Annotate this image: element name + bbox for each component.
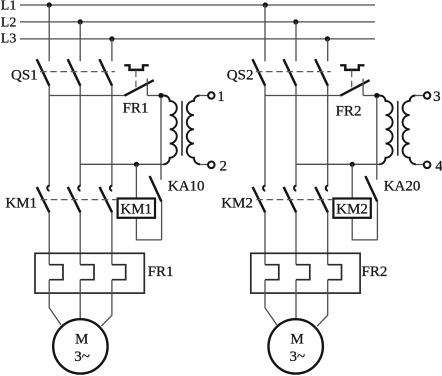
relay KA20 secondary winding <box>403 96 416 165</box>
wire FR1 contact to node <box>147 95 161 97</box>
terminal 4 <box>424 162 431 169</box>
wire KA10 secondary to terminal 1 <box>200 95 208 97</box>
switch QS1 pole 3 top stub wire <box>111 39 113 61</box>
thermal overload FR2 heater element phase 1 <box>265 265 279 280</box>
svg-text:FR1: FR1 <box>123 100 149 116</box>
svg-text:FR2: FR2 <box>362 264 388 280</box>
switch QS2 pole 2 blade <box>284 59 297 86</box>
thermal overload relay FR1 enclosure <box>35 253 144 293</box>
node: L2 tap motor 1 junction <box>78 19 83 24</box>
contactor KM1 main contact pole 2 blade <box>68 187 81 213</box>
thermal relay FR2 NC contact blade <box>340 80 369 96</box>
contactor coil KM1 <box>118 199 155 218</box>
thermal overload FR2 heater element phase 3 <box>328 265 342 280</box>
switch QS2 pole 3 top stub wire <box>327 39 329 61</box>
node: KM2 coil / KA20 coil junction <box>350 162 355 167</box>
wire phase A tap to FR2 contact <box>265 95 340 97</box>
switch QS1 mechanical link (dashed) <box>40 71 115 73</box>
thermal relay FR1 actuator link (dashed) <box>135 71 137 90</box>
wire FR2 phase 2 to motor <box>295 280 297 319</box>
terminal 2 <box>208 162 215 169</box>
contactor KM1 main contact pole 1 blade <box>37 187 50 213</box>
svg-text:QS2: QS2 <box>227 68 254 84</box>
contactor KM1 main contact pole 3 blade <box>100 187 113 213</box>
svg-text:1: 1 <box>217 89 225 105</box>
thermal overload FR1 heater element phase 1 <box>49 265 63 280</box>
switch QS2 pole 1 top stub wire <box>264 5 266 61</box>
power rail L2 <box>20 21 375 23</box>
svg-text:L1: L1 <box>1 0 17 14</box>
thermal relay FR1 NC contact blade <box>125 80 154 96</box>
wire node to KM1 coil <box>135 164 137 198</box>
thermal relay FR2 test button symbol <box>340 65 364 70</box>
relay KA10 NO contact blade <box>150 176 162 202</box>
wire phase B tap to KA10 coil bottom <box>80 163 164 165</box>
wire node to KA10 NO contact <box>160 97 162 180</box>
svg-text:KA10: KA10 <box>168 179 205 195</box>
thermal overload relay FR2 enclosure <box>251 253 360 293</box>
wire FR2 phase 3 to motor <box>317 280 328 326</box>
wire KM2 contact pole 3 to FR2 heater <box>327 212 329 264</box>
wire phase B from QS2 to KM2 contact <box>295 86 297 187</box>
terminal 1 <box>208 92 214 98</box>
node: L2 tap motor 2 junction <box>293 19 298 24</box>
svg-text:3~: 3~ <box>289 349 305 365</box>
wire phase A from QS2 to KM2 contact <box>264 86 266 187</box>
svg-text:M: M <box>290 332 303 348</box>
wire KM1 contact pole 2 to FR1 heater <box>79 212 81 264</box>
contactor KM2 main contact pole 3 blade <box>315 187 328 213</box>
svg-text:3~: 3~ <box>74 349 90 365</box>
switch QS2 pole 2 top stub wire <box>295 22 297 61</box>
node: L1 tap motor 1 junction <box>47 2 52 7</box>
contactor KM2 main contact pole 1 blade <box>253 187 266 213</box>
relay KA10 primary winding <box>161 96 177 165</box>
contactor KM2 main contact pole 2 fixed piece <box>294 186 296 191</box>
node: L3 tap motor 1 junction <box>109 36 114 41</box>
svg-text:FR2: FR2 <box>336 103 362 119</box>
svg-text:KA20: KA20 <box>384 179 421 195</box>
motor M1 (3-phase) <box>53 319 107 373</box>
svg-text:L3: L3 <box>1 32 17 47</box>
thermal relay FR1 NC contact fixed terminal stub <box>146 79 148 96</box>
terminal 3 <box>424 92 430 98</box>
contactor KM1 mechanical link (dashed) <box>41 199 118 201</box>
contactor KM1 main contact pole 2 fixed piece <box>78 186 80 191</box>
contactor KM1 main contact pole 1 fixed piece <box>47 186 49 191</box>
switch QS2 pole 3 blade <box>315 59 328 86</box>
relay KA10 core <box>181 101 183 156</box>
wire KA10 contact to KM1 coil bottom <box>136 218 161 240</box>
wire phase C from QS2 to KM2 contact <box>327 86 329 187</box>
svg-text:4: 4 <box>435 159 442 175</box>
wire KM1 contact pole 1 to FR1 heater <box>48 212 50 264</box>
wire phase C from QS1 to KM1 contact <box>111 86 113 187</box>
svg-text:KM2: KM2 <box>221 196 253 212</box>
switch QS2 pole 1 blade <box>253 59 266 86</box>
thermal relay FR1 test button symbol <box>124 65 148 70</box>
wire FR1 phase 3 to motor <box>101 280 112 326</box>
thermal overload FR1 heater element phase 3 <box>112 265 126 280</box>
switch QS1 pole 3 blade <box>99 59 112 86</box>
contactor KM2 main contact pole 1 fixed piece <box>263 186 265 191</box>
svg-text:KM1: KM1 <box>5 196 37 212</box>
contactor KM1 main contact pole 3 fixed piece <box>110 186 112 191</box>
node: FR1 contact / KA10 coil junction <box>158 93 163 98</box>
wire phase A tap to FR1 contact <box>49 95 124 97</box>
contactor KM2 mechanical link (dashed) <box>256 199 333 201</box>
wire node to KA20 NO contact <box>376 97 378 180</box>
svg-text:KM2: KM2 <box>336 202 368 218</box>
switch QS1 pole 2 top stub wire <box>79 22 81 61</box>
thermal relay FR2 NC contact fixed terminal stub <box>362 79 364 96</box>
wire KA20 secondary to terminal 3 <box>415 95 423 97</box>
switch QS1 pole 2 blade <box>68 59 81 86</box>
wire KA20 contact to KM2 coil bottom <box>352 218 377 240</box>
relay KA20 primary winding <box>377 96 393 165</box>
svg-text:QS1: QS1 <box>11 68 38 84</box>
node: L3 tap motor 2 junction <box>325 36 330 41</box>
wire KM2 contact pole 1 to FR2 heater <box>264 212 266 264</box>
svg-text:2: 2 <box>220 159 228 175</box>
wire phase B from QS1 to KM1 contact <box>79 86 81 187</box>
power rail L1 <box>20 4 375 6</box>
wire KM1 contact pole 3 to FR1 heater <box>111 212 113 264</box>
node: KM1 coil / KA10 coil junction <box>134 162 139 167</box>
thermal overload FR2 heater element phase 2 <box>296 265 310 280</box>
wire phase A from QS1 to KM1 contact <box>48 86 50 187</box>
thermal relay FR2 actuator link (dashed) <box>351 71 353 90</box>
relay KA20 NO contact blade <box>365 176 377 202</box>
motor M2 (3-phase) <box>269 319 323 373</box>
svg-text:L2: L2 <box>1 15 17 30</box>
contactor coil KM2 <box>333 199 370 218</box>
svg-text:KM1: KM1 <box>120 202 152 218</box>
wire node to KM2 coil <box>351 164 353 198</box>
wire KA20 contact lower stub <box>376 202 378 240</box>
wire FR2 contact to node <box>363 95 377 97</box>
svg-text:3: 3 <box>433 89 441 105</box>
wire phase B tap to KA20 coil bottom <box>296 163 380 165</box>
wire FR2 phase 1 to motor <box>265 280 277 325</box>
wire KA20 secondary to terminal 4 <box>416 164 424 166</box>
node: L1 tap motor 2 junction <box>263 2 268 7</box>
svg-text:M: M <box>75 332 88 348</box>
switch QS1 pole 1 blade <box>37 59 50 86</box>
node: FR2 contact / KA20 coil junction <box>374 93 379 98</box>
contactor KM2 main contact pole 3 fixed piece <box>326 186 328 191</box>
relay KA10 secondary winding <box>187 96 200 165</box>
wire KA10 secondary to terminal 2 <box>200 164 208 166</box>
wire FR1 phase 1 to motor <box>49 280 61 325</box>
relay KA20 core <box>397 101 399 156</box>
svg-text:FR1: FR1 <box>148 264 174 280</box>
contactor KM2 main contact pole 2 blade <box>284 187 297 213</box>
power rail L3 <box>20 38 375 40</box>
switch QS2 mechanical link (dashed) <box>256 71 331 73</box>
thermal overload FR1 heater element phase 2 <box>80 265 94 280</box>
wire KM2 contact pole 2 to FR2 heater <box>295 212 297 264</box>
wire KA10 contact lower stub <box>161 202 163 240</box>
switch QS1 pole 1 top stub wire <box>48 5 50 61</box>
wire FR1 phase 2 to motor <box>79 280 81 319</box>
